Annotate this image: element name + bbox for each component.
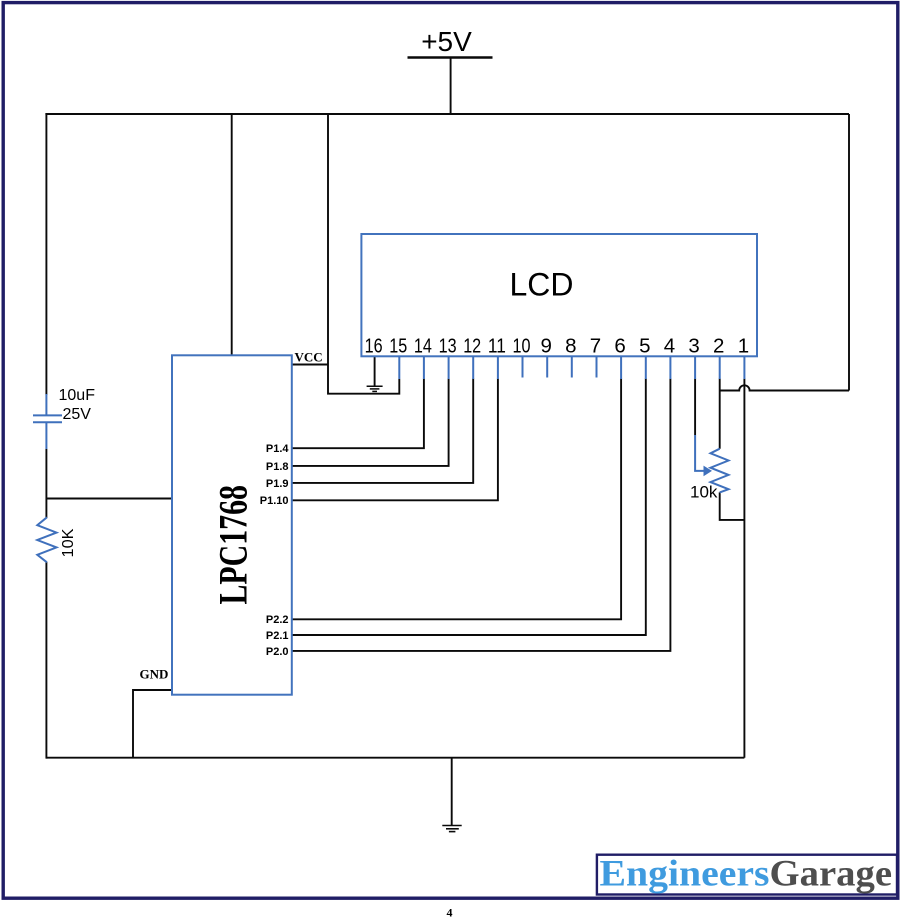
svg-text:2: 2 — [713, 334, 724, 357]
svg-text:P1.9: P1.9 — [266, 478, 289, 490]
svg-text:3: 3 — [688, 334, 699, 357]
svg-text:P2.1: P2.1 — [266, 630, 289, 642]
svg-text:15: 15 — [389, 334, 407, 357]
svg-text:1: 1 — [738, 334, 749, 357]
svg-text:25V: 25V — [63, 406, 92, 423]
svg-text:13: 13 — [439, 334, 457, 357]
svg-text:9: 9 — [540, 334, 551, 357]
svg-text:+5V: +5V — [421, 26, 472, 57]
svg-text:16: 16 — [365, 334, 383, 357]
svg-text:4: 4 — [447, 906, 453, 920]
svg-text:8: 8 — [565, 334, 576, 357]
svg-text:6: 6 — [614, 334, 625, 357]
svg-text:LCD: LCD — [509, 267, 573, 303]
svg-text:11: 11 — [488, 334, 506, 357]
svg-text:7: 7 — [590, 334, 601, 357]
svg-text:10K: 10K — [60, 528, 77, 557]
svg-text:10: 10 — [513, 334, 531, 357]
svg-text:P1.10: P1.10 — [260, 495, 289, 507]
svg-text:12: 12 — [463, 334, 481, 357]
svg-text:P1.8: P1.8 — [266, 461, 289, 473]
svg-text:5: 5 — [639, 334, 650, 357]
svg-text:Garage: Garage — [770, 854, 893, 895]
svg-text:P2.2: P2.2 — [266, 614, 289, 626]
svg-text:Engineers: Engineers — [600, 854, 770, 895]
svg-text:GND: GND — [140, 666, 169, 681]
svg-text:LPC1768: LPC1768 — [211, 485, 256, 605]
svg-text:VCC: VCC — [295, 349, 323, 364]
svg-text:P2.0: P2.0 — [266, 646, 289, 658]
svg-text:14: 14 — [414, 334, 432, 357]
svg-text:4: 4 — [664, 334, 675, 357]
svg-text:10uF: 10uF — [59, 387, 96, 404]
svg-text:10k: 10k — [690, 483, 718, 502]
svg-text:P1.4: P1.4 — [266, 443, 290, 455]
